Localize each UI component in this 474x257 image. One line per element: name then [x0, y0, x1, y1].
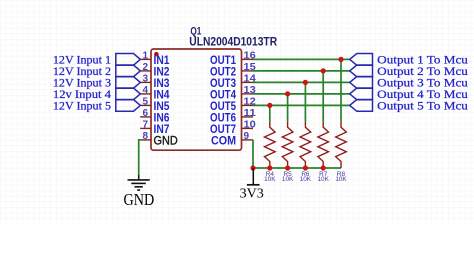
- wire output2: [253, 70, 350, 72]
- pin 8 GND: [140, 131, 178, 148]
- wire pin8 to ground: [139, 140, 141, 175]
- pin 1 IN1: [140, 50, 170, 67]
- junction rail / R7: [321, 165, 326, 170]
- svg-text:3: 3: [142, 73, 148, 84]
- pin 13 OUT4: [210, 85, 256, 102]
- pin 11 OUT6: [210, 108, 256, 125]
- svg-text:GND: GND: [154, 133, 178, 147]
- junction output1 / R8: [338, 57, 343, 62]
- ground: [124, 175, 155, 209]
- wire output4: [253, 93, 350, 95]
- pin 14 OUT3: [210, 73, 256, 90]
- svg-text:10K: 10K: [264, 176, 276, 183]
- svg-text:11: 11: [244, 108, 257, 119]
- junction rail / COM: [250, 165, 255, 170]
- port 12v Input 4: [53, 87, 140, 101]
- power 3V3: [240, 168, 264, 201]
- junction output2 / R7: [321, 68, 326, 73]
- IC Q1 ULN2004D1013TR body: [151, 49, 242, 150]
- junction rail / R6: [303, 165, 308, 170]
- wire output3: [253, 81, 350, 83]
- junction rail / R5: [285, 165, 290, 170]
- pin 12 OUT5: [210, 96, 256, 113]
- junction rail / R4: [267, 165, 272, 170]
- wire 3V3 rail: [253, 167, 341, 169]
- svg-text:Output 5 To Mcu: Output 5 To Mcu: [377, 99, 468, 113]
- port 12V Input 2: [53, 64, 140, 78]
- pin 16 OUT1: [210, 50, 256, 67]
- svg-text:5: 5: [142, 96, 148, 107]
- pin 6 IN6: [140, 108, 170, 125]
- svg-text:7: 7: [142, 119, 148, 130]
- pin 9 COM: [211, 131, 253, 148]
- svg-text:12V Input 5: 12V Input 5: [53, 98, 111, 112]
- port 12V Input 5: [53, 98, 140, 112]
- svg-text:10K: 10K: [300, 176, 312, 183]
- wire output1: [253, 58, 350, 60]
- svg-text:3V3: 3V3: [240, 186, 264, 201]
- svg-text:8: 8: [142, 131, 148, 142]
- pin 3 IN3: [140, 73, 170, 90]
- pin 7 IN7: [140, 119, 170, 135]
- junction output3 / R6: [303, 80, 308, 85]
- port Output 5 To Mcu: [350, 99, 468, 113]
- svg-text:GND: GND: [124, 190, 155, 209]
- svg-text:10K: 10K: [335, 176, 347, 183]
- port Output 4 To Mcu: [350, 87, 468, 101]
- svg-text:9: 9: [244, 131, 250, 142]
- port Output 2 To Mcu: [350, 64, 468, 78]
- svg-text:6: 6: [142, 108, 148, 119]
- port Output 3 To Mcu: [350, 76, 468, 90]
- pin 2 IN2: [140, 62, 170, 79]
- wire COM to 3V3 rail: [252, 140, 254, 168]
- svg-text:10K: 10K: [318, 176, 330, 183]
- port Output 1 To Mcu: [350, 53, 468, 67]
- pin 15 OUT2: [210, 62, 256, 79]
- svg-text:ULN2004D1013TR: ULN2004D1013TR: [189, 36, 277, 48]
- svg-text:10: 10: [244, 119, 257, 130]
- pin 5 IN5: [140, 96, 170, 113]
- pin 10 OUT7: [210, 119, 256, 135]
- resistor R4 10K: [264, 105, 276, 183]
- resistor R8 10K: [335, 59, 347, 183]
- junction output4 / R5: [285, 91, 290, 96]
- resistor R5 10K: [282, 94, 294, 183]
- pin 4 IN4: [140, 85, 170, 102]
- svg-text:4: 4: [142, 85, 148, 96]
- svg-text:COM: COM: [211, 133, 236, 147]
- svg-text:2: 2: [142, 62, 148, 73]
- resistor R7 10K: [318, 71, 330, 183]
- junction output5 / R4: [267, 103, 272, 108]
- resistor R6 10K: [300, 82, 312, 183]
- port 12V Input 3: [53, 75, 140, 89]
- svg-text:10K: 10K: [282, 176, 294, 183]
- svg-text:1: 1: [142, 50, 148, 61]
- port 12V Input 1: [53, 52, 140, 66]
- wire output5: [253, 104, 350, 106]
